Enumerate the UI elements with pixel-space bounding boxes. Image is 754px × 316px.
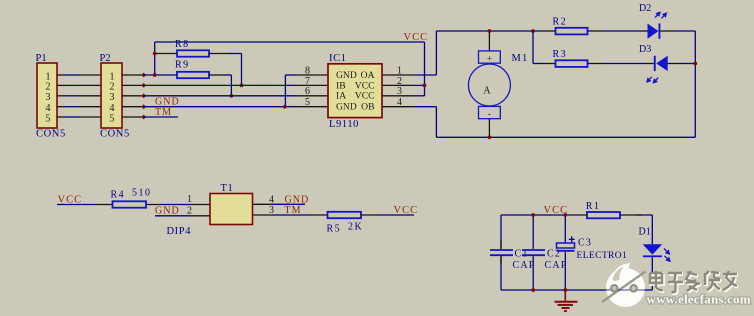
svg-text:D1: D1 [639,227,651,238]
svg-text:P2: P2 [100,53,111,64]
junction dot motor bottom [488,135,492,139]
svg-text:2: 2 [110,82,115,93]
svg-text:510: 510 [132,188,152,199]
svg-text:4: 4 [397,97,402,108]
svg-text:3: 3 [46,92,51,103]
svg-text:CON5: CON5 [100,129,130,140]
svg-text:R2: R2 [553,17,568,28]
svg-text:D3: D3 [639,44,651,55]
svg-text:2K: 2K [348,222,363,233]
svg-text:-: - [488,109,491,119]
ic IC1 L9110 [296,53,415,130]
svg-text:T1: T1 [221,183,234,194]
svg-text:IA: IA [336,91,346,102]
svg-text:IC1: IC1 [329,53,347,64]
svg-text:TM: TM [285,205,302,216]
wire VCC top net [144,42,425,96]
svg-text:7: 7 [305,76,310,87]
resistor R4 510 [57,188,190,208]
wire P2 right pin stubs [122,75,144,117]
svg-text:5: 5 [110,113,115,124]
svg-text:VCC: VCC [355,91,375,102]
junction dot GND bus [283,105,287,109]
svg-text:TM: TM [155,107,172,118]
svg-text:2: 2 [187,206,192,217]
svg-text:6: 6 [305,86,310,97]
junction dot R8 to IB row [240,84,244,88]
svg-text:D2: D2 [639,3,651,14]
led D3 [639,44,695,83]
svg-text:R4: R4 [111,190,126,201]
wire GND bus vertical to IC pin8 [285,75,295,107]
wire IC pin2/pin3 to VCC vertical [415,84,425,86]
svg-text:C3: C3 [578,238,592,249]
capacitor C1 CAP [490,241,536,271]
watermark chinese text [650,271,738,293]
junction dot R2/R3 branch [531,29,535,33]
resistor R5 2K [310,212,414,235]
svg-text:GND: GND [285,195,310,206]
svg-text:CAP: CAP [545,260,568,271]
svg-text:L9110: L9110 [329,119,359,130]
led D2 [639,3,695,39]
svg-text:A: A [483,86,491,97]
svg-text:R3: R3 [553,49,568,60]
svg-text:1: 1 [46,71,51,82]
svg-text:2: 2 [46,82,51,93]
svg-text:1: 1 [187,194,192,205]
wire IC pin4 OB to bottom rail [415,107,696,138]
wire T1 pin2 [155,215,210,217]
svg-text:www.elecfans.com: www.elecfans.com [647,292,751,307]
svg-text:5: 5 [305,97,310,108]
junction dot VCC pin2 [423,84,427,88]
junction diamonds at P2 pin ends [141,73,146,120]
svg-text:GND: GND [336,101,357,112]
svg-text:R9: R9 [175,60,190,71]
svg-text:R8: R8 [175,39,190,50]
wire IB row (P2 pin2 to IC pin7) [144,84,296,86]
svg-text:+: + [487,54,492,64]
wire bottom-right block top rail [501,215,652,290]
svg-text:M1: M1 [512,53,529,64]
motor M1 [468,31,528,137]
resistor R2 [541,17,641,35]
svg-text:R1: R1 [586,201,601,212]
wire P1 to P2 pins 1-5 [57,75,101,117]
svg-text:VCC: VCC [404,32,429,43]
capacitor C3 ELECTRO1 [557,215,628,290]
svg-text:DIP4: DIP4 [167,226,192,237]
junction dot D3 right [693,62,697,66]
junction dot R9 to IA row [230,94,234,98]
wire R3 branch vertical [533,31,541,64]
watermark logo [602,263,652,307]
svg-text:CAP: CAP [513,260,536,271]
wire T1 pin1 stub [190,204,210,206]
wire T1 pin4 to GND label [253,203,306,205]
wire TM stub (P2 pin5) [144,116,178,118]
capacitor C2 CAP [522,215,568,290]
resistor R1 [570,201,642,218]
svg-text:1: 1 [110,71,115,82]
svg-text:3: 3 [110,92,115,103]
svg-text:GND: GND [155,206,180,217]
wire D2/D3 right rail [694,31,696,137]
svg-text:1: 1 [397,65,402,76]
junction dot motor top [488,29,492,33]
svg-text:2: 2 [397,76,402,87]
svg-text:5: 5 [46,113,51,124]
junction dots bottom-right block [531,213,535,217]
led D1 [639,215,670,290]
resistor R9 [175,60,231,96]
junction dot vertical to pin1 row [153,73,157,77]
svg-text:3: 3 [397,86,402,97]
ground [555,290,578,311]
svg-text:CON5: CON5 [36,129,66,140]
component T1 DIP4 [167,183,275,237]
resistor R3 [541,49,645,67]
svg-text:ELECTRO1: ELECTRO1 [577,251,628,261]
connector P2 [100,53,130,140]
resistor R8 [155,39,242,85]
svg-text:P1: P1 [36,53,47,64]
svg-text:GND: GND [155,97,180,108]
wire GND row (P2 pin4 to IC pin5) [144,106,296,108]
wire IC pin1 OA to top rail [415,31,542,75]
wire IA row (P2 pin3 to IC pin6) [144,95,296,97]
connector P1 [36,53,66,140]
svg-text:8: 8 [305,65,310,76]
svg-text:R5: R5 [327,224,342,235]
wire T1 pin3 to R5 [253,214,311,216]
svg-text:VCC: VCC [394,205,419,216]
junction dot R8 top [153,52,157,56]
svg-text:OB: OB [361,101,374,112]
